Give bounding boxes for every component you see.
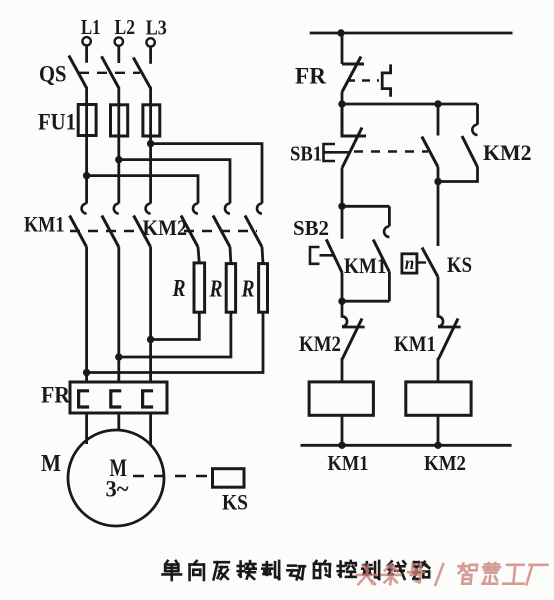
coil KM2: [406, 382, 471, 415]
svg-text:FU1: FU1: [38, 110, 76, 135]
wire to KS contact: [437, 182, 440, 247]
svg-text:KM2: KM2: [143, 215, 188, 240]
junction fuse3 output: [147, 140, 154, 147]
linkage SB1 dashed: [354, 150, 428, 152]
svg-text:KS: KS: [447, 252, 472, 277]
contactor KM1 interlock NC hook: [438, 316, 461, 327]
thermal contact FR blade: [342, 57, 361, 93]
thermal contact FR element: [382, 64, 390, 96]
wire KM2 contact3 to R3: [262, 247, 263, 264]
junction node A - SB1NO: [434, 100, 441, 107]
contactor KM1 main contact 3 blade: [134, 216, 151, 248]
contactor KM2 aux NO hook: [472, 125, 477, 135]
motor M circle: [68, 430, 164, 526]
wire node C rail: [342, 300, 389, 303]
wire L3 to QS: [149, 47, 152, 64]
mechanical link motor to KS dashed: [133, 475, 212, 478]
svg-text:KM2: KM2: [424, 451, 466, 475]
pushbutton SB1 NO terminal: [437, 104, 440, 136]
wire SB2 bottom: [341, 273, 344, 302]
contactor KM2 main contact 1 blade: [181, 216, 198, 248]
svg-text:KM1: KM1: [328, 451, 369, 475]
junction node A: [338, 100, 345, 107]
pushbutton SB1 NC blade: [342, 128, 362, 169]
fuse FU1 element 1: [78, 105, 96, 136]
wire coil KM2 to bottom rail: [437, 415, 440, 445]
contactor KM2 main contact 3 hook: [257, 204, 262, 214]
svg-text:FR: FR: [295, 64, 326, 89]
speed relay KS n-box: [402, 254, 417, 273]
fuse FU1 element 2: [111, 105, 128, 136]
wire FR to motor V: [117, 413, 120, 430]
wire R3 to phase1: [87, 312, 263, 372]
wire QS pole1 to KM1 pole1: [85, 87, 88, 204]
switch QS pole 3 blade: [133, 58, 150, 89]
switch QS pole 2 blade: [102, 56, 119, 88]
terminal L1: [82, 37, 90, 45]
wire L1 to QS: [85, 46, 88, 63]
contactor KM1 aux NO hook: [384, 226, 389, 237]
contactor KM1 main contact 2 blade: [102, 216, 119, 248]
junction bottom rail KM1: [338, 442, 345, 449]
junction top rail: [337, 29, 344, 36]
wire KM2 contact1 to R1: [198, 247, 199, 263]
speed relay KS link: [417, 261, 426, 263]
contactor KM1 aux NO blade: [373, 240, 389, 273]
wire R2 to phase2: [119, 312, 231, 357]
speed switch KS body: [213, 469, 245, 488]
svg-text:L3: L3: [146, 16, 167, 40]
wire KM1 contact1 to FR: [85, 247, 88, 382]
svg-text:KM2: KM2: [483, 140, 532, 165]
wire node A rail: [342, 103, 478, 106]
switch QS linkage dashed: [79, 72, 140, 74]
coil KM1: [309, 382, 373, 415]
contactor KM1 main contact 3 hook: [146, 204, 151, 214]
svg-text:QS: QS: [39, 62, 67, 87]
contactor KM1 aux NO terminal: [388, 206, 391, 226]
pushbutton SB2 terminal: [341, 206, 344, 239]
junction node C: [338, 298, 345, 305]
wire control bottom rail: [301, 444, 512, 447]
svg-text:L1: L1: [81, 15, 101, 39]
svg-text:R: R: [241, 277, 255, 303]
wire QS pole2 to KM1 pole2: [117, 87, 120, 204]
watermark text (Chinese, red): [356, 563, 548, 585]
pushbutton SB1 actuator: [324, 144, 350, 161]
svg-text:L2: L2: [115, 15, 136, 39]
wire R1 to phase3: [151, 312, 200, 339]
junction fuse1 output: [83, 172, 90, 179]
wire top rail to FR contact: [341, 33, 344, 64]
wire QS pole3 to KM1 pole3: [149, 87, 152, 204]
contactor KM2 aux NO blade: [462, 136, 478, 167]
contactor KM2 main contact 2 blade: [213, 216, 230, 248]
terminal L3: [146, 38, 154, 46]
wire FR contact to node A: [341, 92, 344, 104]
pushbutton SB2 blade: [326, 239, 342, 272]
svg-text:3~: 3~: [106, 477, 129, 502]
wire KM2 contact2 to R2: [229, 247, 233, 264]
svg-text:SB2: SB2: [293, 216, 329, 240]
svg-text:R: R: [209, 277, 223, 303]
junction R3-phase1: [83, 369, 90, 376]
wire node B rail: [342, 205, 389, 208]
svg-text:FR: FR: [41, 383, 70, 408]
resistor R1: [194, 263, 205, 312]
contactor KM1 main contact 1 blade: [70, 216, 87, 248]
wire KM2 aux bottom: [438, 167, 478, 182]
thermal relay FR heater 2: [111, 391, 122, 407]
resistor R3: [259, 264, 268, 313]
svg-text:M: M: [41, 451, 61, 477]
contactor KM1 main contact 1 hook: [82, 204, 87, 214]
wire L2 to QS: [117, 46, 120, 63]
svg-text:KM1: KM1: [394, 331, 436, 356]
svg-text:KM1: KM1: [344, 253, 387, 278]
wire KM2 NC to coil KM1: [341, 358, 344, 382]
contactor KM2 main contact 2 hook: [225, 204, 230, 214]
wire control top rail: [310, 32, 513, 35]
contactor KM1 interlock NC blade: [439, 319, 459, 360]
pushbutton SB2 actuator: [310, 247, 333, 264]
contactor KM2 main contact 1 hook: [193, 204, 198, 214]
svg-text:KM1: KM1: [24, 212, 65, 237]
contactor KM2 main contact 3 blade: [245, 216, 262, 248]
wire KM1 contact3 to FR: [149, 247, 152, 382]
svg-text:SB1: SB1: [290, 142, 322, 166]
caption text (Chinese): unidirectional plugging-brake control circuit: [163, 561, 430, 580]
pushbutton SB1 NO blade: [422, 137, 438, 168]
wire SB1 to node B: [341, 168, 344, 206]
wire KM1 contact2 to FR: [117, 247, 120, 382]
wire FR to motor U: [85, 413, 88, 444]
contactor KM2 interlock NC hook: [342, 301, 365, 327]
fuse FU1 element 3: [143, 105, 160, 136]
thermal contact FR linkage dashed: [347, 79, 379, 81]
wire KM1 aux bottom: [388, 272, 391, 301]
contactor KM2 linkage dashed: [184, 230, 257, 232]
wire FR to motor W: [149, 413, 152, 444]
contactor KM2 aux NO terminal: [476, 104, 479, 125]
junction node B: [338, 203, 345, 210]
wire fuse1 to KM2 pole1: [87, 176, 198, 204]
junction R1-phase3: [147, 336, 154, 343]
svg-text:n: n: [405, 253, 415, 273]
wire KM1 NC to coil KM2: [437, 358, 440, 382]
wire coil KM1 to bottom rail: [341, 415, 344, 445]
wire SB1NO bottom: [437, 167, 440, 182]
thermal contact FR fixed stub: [342, 63, 364, 66]
contactor KM1 main contact 2 hook: [114, 204, 119, 214]
pushbutton SB1 NC fixed stub: [342, 104, 366, 136]
junction SB1NO-KM2aux: [434, 178, 441, 185]
thermal relay FR heater 3: [143, 391, 154, 407]
wire KS to KM1 NC: [437, 277, 440, 316]
thermal relay FR box: [70, 382, 167, 413]
thermal relay FR heater 1: [79, 391, 90, 407]
wire fuse2 to KM2 pole2: [119, 160, 230, 204]
svg-text:R: R: [172, 276, 186, 302]
junction R2-phase2: [115, 353, 122, 360]
svg-text:KS: KS: [222, 490, 248, 515]
contactor KM2 interlock NC blade: [342, 319, 362, 360]
svg-text:KM2: KM2: [299, 331, 341, 356]
wire fuse3 to KM2 pole3: [151, 144, 262, 204]
resistor R2: [226, 264, 235, 313]
terminal L2: [115, 37, 123, 45]
speed switch KS blade: [422, 248, 438, 278]
junction bottom rail KM2: [434, 442, 441, 449]
junction fuse2 output: [115, 156, 122, 163]
switch QS pole 1 blade: [69, 56, 87, 89]
contactor KM1 linkage dashed: [70, 230, 140, 232]
